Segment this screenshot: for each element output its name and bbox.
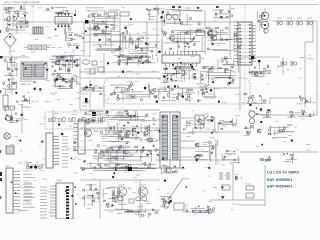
svg-text:EAY 40504401: EAY 40504401 <box>267 185 292 189</box>
svg-text:1.5A: 1.5A <box>306 149 311 152</box>
svg-text:SMPS BOARD ASSY: SMPS BOARD ASSY <box>86 7 105 10</box>
svg-text:EAY40505001: EAY40505001 <box>20 80 32 83</box>
svg-text:P801: P801 <box>5 166 9 168</box>
svg-text:CN801: CN801 <box>56 180 62 182</box>
svg-text:LG LCD TV SMPS: LG LCD TV SMPS <box>267 171 299 175</box>
svg-text:SMPS-1 POWER SCHEMATIC DIAGRAM: SMPS-1 POWER SCHEMATIC DIAGRAM <box>4 1 40 4</box>
svg-text:TRANS T801: TRANS T801 <box>20 83 31 86</box>
svg-text:EAY 40505001: EAY 40505001 <box>267 178 292 182</box>
svg-text:(EAY40505001) LGP32: (EAY40505001) LGP32 <box>86 10 106 13</box>
